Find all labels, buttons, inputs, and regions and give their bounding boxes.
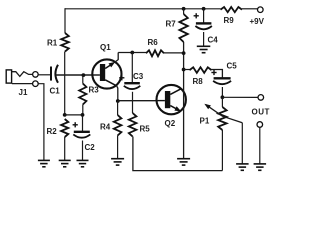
wire divider link — [65, 114, 83, 116]
wire R5 bottom rail — [133, 137, 223, 171]
svg-text:R1: R1 — [47, 39, 58, 48]
resistor R7 — [183, 9, 185, 14]
transistor Q1 — [92, 59, 121, 88]
svg-text:C1: C1 — [50, 87, 61, 96]
node C3 top — [130, 51, 134, 55]
resistor R2 — [61, 119, 68, 137]
terminal J1 sleeve — [33, 81, 39, 87]
svg-text:R4: R4 — [100, 123, 111, 132]
resistor R1 — [61, 33, 69, 52]
transistor Q2 — [157, 85, 186, 114]
svg-text:C3: C3 — [133, 72, 144, 81]
wire R7 to Q2 column — [183, 42, 185, 159]
wire C1 to Q1 base — [56, 74, 93, 76]
node rail C4 — [202, 7, 206, 11]
svg-text:C5: C5 — [227, 62, 238, 71]
node R6/R7 — [182, 51, 186, 55]
wire Q1 emitter up — [115, 53, 118, 63]
wire tip to C1 — [38, 74, 50, 76]
ground C4 — [197, 45, 211, 47]
wire Q1 collector down — [116, 85, 118, 101]
jack J1 — [6, 70, 11, 83]
wire wiper to ground — [241, 123, 243, 164]
wire R1 to divider node — [64, 52, 66, 115]
resistor R6 — [146, 50, 164, 56]
wire R1 top lead — [64, 8, 66, 33]
svg-text:OUT: OUT — [252, 108, 270, 117]
resistor R4 — [117, 101, 119, 115]
ground OUT — [254, 163, 267, 165]
resistor R5 — [129, 113, 137, 137]
terminal +9V — [258, 7, 264, 13]
svg-text:R6: R6 — [148, 38, 159, 47]
ground J1 — [38, 159, 50, 161]
svg-text:Q1: Q1 — [100, 43, 111, 52]
wire sleeve to ground — [38, 84, 44, 161]
capacitor C2 — [82, 115, 84, 132]
svg-text:C4: C4 — [208, 36, 219, 45]
potentiometer P1 — [221, 97, 223, 107]
svg-text:R2: R2 — [47, 127, 58, 136]
node rail R7 — [182, 7, 186, 11]
ground C2 — [77, 159, 89, 161]
resistor R8 — [184, 69, 190, 71]
svg-text:R3: R3 — [89, 86, 100, 95]
wire top feedback rail — [118, 52, 146, 54]
capacitor C3 — [131, 53, 133, 84]
svg-text:C2: C2 — [85, 143, 96, 152]
terminal J1 tip — [33, 72, 39, 78]
ground Q2 — [177, 158, 190, 160]
wire top supply rail — [65, 8, 221, 10]
ground R2 — [59, 159, 71, 161]
svg-text:R9: R9 — [224, 16, 235, 25]
terminal OUT hot — [258, 95, 264, 101]
node Q1 collector — [116, 99, 120, 103]
terminal OUT gnd — [257, 122, 263, 128]
ground R4 — [111, 158, 124, 160]
ground P1 — [236, 163, 249, 165]
wire to OUT — [222, 96, 258, 98]
svg-text:R8: R8 — [193, 77, 204, 86]
svg-text:R5: R5 — [140, 125, 151, 134]
wire base Q2 — [118, 100, 157, 102]
capacitor C5 — [214, 77, 231, 79]
node output — [221, 95, 225, 99]
svg-text:+9V: +9V — [250, 17, 265, 26]
node R8 — [182, 68, 186, 72]
resistor R9 — [221, 7, 243, 12]
resistor R3 — [82, 75, 84, 83]
svg-text:P1: P1 — [200, 117, 210, 126]
svg-text:Q2: Q2 — [165, 119, 176, 128]
svg-text:R7: R7 — [166, 20, 177, 29]
node base Q1 — [82, 73, 86, 77]
P1 wiper — [206, 105, 243, 123]
node R2/R3 — [63, 113, 67, 117]
capacitor C4 — [203, 9, 205, 24]
capacitor C1 — [50, 67, 52, 81]
svg-text:J1: J1 — [19, 88, 28, 97]
